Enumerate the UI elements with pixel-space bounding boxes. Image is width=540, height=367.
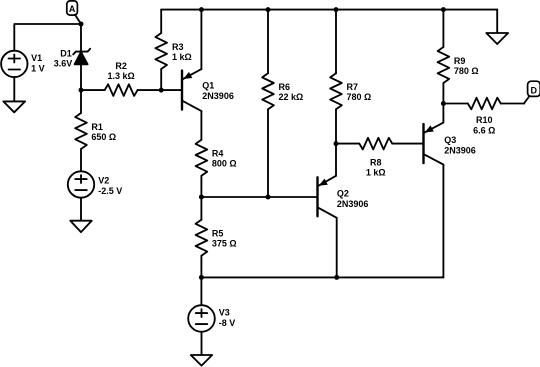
node junction at A column top — [79, 22, 84, 27]
junction R4 bottom — [199, 195, 204, 200]
svg-text:A: A — [69, 4, 76, 14]
svg-text:D: D — [531, 85, 538, 95]
resistor R3 — [155, 33, 167, 69]
mid wire R4/R6/Q2 base — [201, 196, 317, 198]
node D — [528, 81, 540, 96]
svg-text:R1: R1 — [91, 122, 103, 132]
junction bottom rail / V3 — [199, 275, 204, 280]
resistor R4 — [196, 140, 208, 176]
wire R9 bottom — [442, 83, 444, 104]
wire R4 bottom — [200, 176, 202, 197]
svg-text:R7: R7 — [347, 82, 359, 92]
ground (below V3) — [191, 355, 212, 366]
resistor R2 — [105, 84, 138, 96]
ground (top right) — [496, 10, 498, 33]
wire D1 to junction — [80, 64, 82, 90]
resistor R5 — [196, 220, 208, 256]
resistor R8 — [359, 138, 392, 150]
junction Q2 collector — [334, 275, 339, 280]
wire R1 bottom to V2 — [80, 149, 82, 171]
svg-text:6.6 Ω: 6.6 Ω — [473, 125, 495, 135]
wire V3 to ground — [201, 332, 203, 355]
wire R7 top — [335, 10, 337, 74]
junction R7/R8/Q2 emitter — [334, 141, 339, 146]
wire A horizontal to V1 — [14, 24, 81, 51]
svg-text:650 Ω: 650 Ω — [91, 132, 116, 142]
svg-text:1 kΩ: 1 kΩ — [366, 168, 386, 178]
wire A vertical down to D1 — [80, 24, 82, 52]
svg-text:780 Ω: 780 Ω — [454, 66, 479, 76]
svg-text:R5: R5 — [212, 228, 224, 238]
junction R7 top — [334, 7, 339, 12]
wire R10 left — [443, 103, 467, 105]
node junction R3/R2 — [159, 88, 164, 93]
resistor R10 — [468, 98, 501, 110]
resistor R6 — [262, 73, 274, 109]
resistor R1 — [75, 113, 87, 149]
svg-text:1 kΩ: 1 kΩ — [172, 52, 192, 62]
wire R5 bottom — [200, 256, 202, 278]
wire R6 top — [267, 10, 269, 74]
top rail wire — [161, 9, 497, 11]
svg-text:R3: R3 — [172, 42, 184, 52]
svg-text:V1: V1 — [31, 53, 42, 63]
wire R3 top — [160, 10, 162, 33]
svg-text:Q3: Q3 — [444, 135, 456, 145]
svg-text:R9: R9 — [454, 56, 466, 66]
source V3 — [200, 277, 202, 305]
bottom rail wire — [201, 276, 443, 278]
svg-text:1 V: 1 V — [31, 64, 45, 74]
svg-text:R6: R6 — [279, 82, 291, 92]
resistor R9 — [438, 47, 450, 83]
svg-text:R2: R2 — [115, 61, 127, 71]
svg-text:-8 V: -8 V — [219, 318, 236, 328]
wire V1 to ground — [13, 77, 15, 101]
svg-text:-2.5 V: -2.5 V — [98, 186, 122, 196]
transistor Q3 — [424, 104, 444, 278]
wire R5 top — [200, 197, 202, 220]
transistor Q1 — [182, 10, 201, 140]
junction R6 top — [266, 7, 271, 12]
junction Q1 emitter / rail — [199, 7, 204, 12]
node A wire (diagonal from label) — [75, 15, 81, 24]
zener diode D1 — [73, 49, 90, 65]
svg-text:Q1: Q1 — [202, 81, 214, 91]
wire R2 left — [81, 89, 105, 91]
svg-text:1.3 kΩ: 1.3 kΩ — [107, 71, 134, 81]
wire R2 right to Q1 base — [138, 89, 182, 91]
svg-text:3.6V: 3.6V — [54, 59, 73, 69]
wire R7 bottom — [335, 109, 337, 143]
wire R8 left — [336, 143, 359, 145]
wire R1 top — [80, 90, 82, 113]
ground (below V1) — [3, 101, 25, 112]
wire R8 right to Q3 base — [392, 143, 423, 145]
svg-text:V3: V3 — [219, 307, 230, 317]
resistor R7 — [330, 73, 342, 109]
transistor Q2 — [318, 144, 337, 278]
svg-text:V2: V2 — [98, 176, 109, 186]
junction R9/R10/Q3 emitter — [441, 101, 446, 106]
junction R9 top — [441, 7, 446, 12]
svg-text:800 Ω: 800 Ω — [212, 158, 237, 168]
wire diagonal to node D — [524, 96, 529, 104]
wire R9 top — [442, 10, 444, 47]
svg-text:2N3906: 2N3906 — [444, 146, 476, 156]
svg-text:2N3906: 2N3906 — [202, 91, 234, 101]
node junction D1/R1/R2 — [79, 88, 84, 93]
node A — [67, 1, 78, 15]
svg-text:R8: R8 — [370, 158, 382, 168]
svg-text:R4: R4 — [212, 148, 224, 158]
svg-text:2N3906: 2N3906 — [337, 199, 369, 209]
wire V2 to ground — [80, 198, 82, 221]
wire R6 bottom — [267, 109, 269, 197]
source V2 — [68, 171, 94, 197]
svg-text:R10: R10 — [476, 115, 493, 125]
junction R6 bottom — [266, 195, 271, 200]
svg-text:375 Ω: 375 Ω — [212, 238, 237, 248]
svg-text:D1: D1 — [60, 49, 72, 59]
svg-text:780 Ω: 780 Ω — [347, 92, 372, 102]
ground (below V2) — [70, 221, 91, 232]
svg-text:Q2: Q2 — [337, 189, 349, 199]
wire R10 right — [501, 103, 524, 105]
source V1 — [1, 51, 27, 77]
svg-text:22 kΩ: 22 kΩ — [279, 92, 304, 102]
wire R3 bottom — [160, 69, 162, 90]
